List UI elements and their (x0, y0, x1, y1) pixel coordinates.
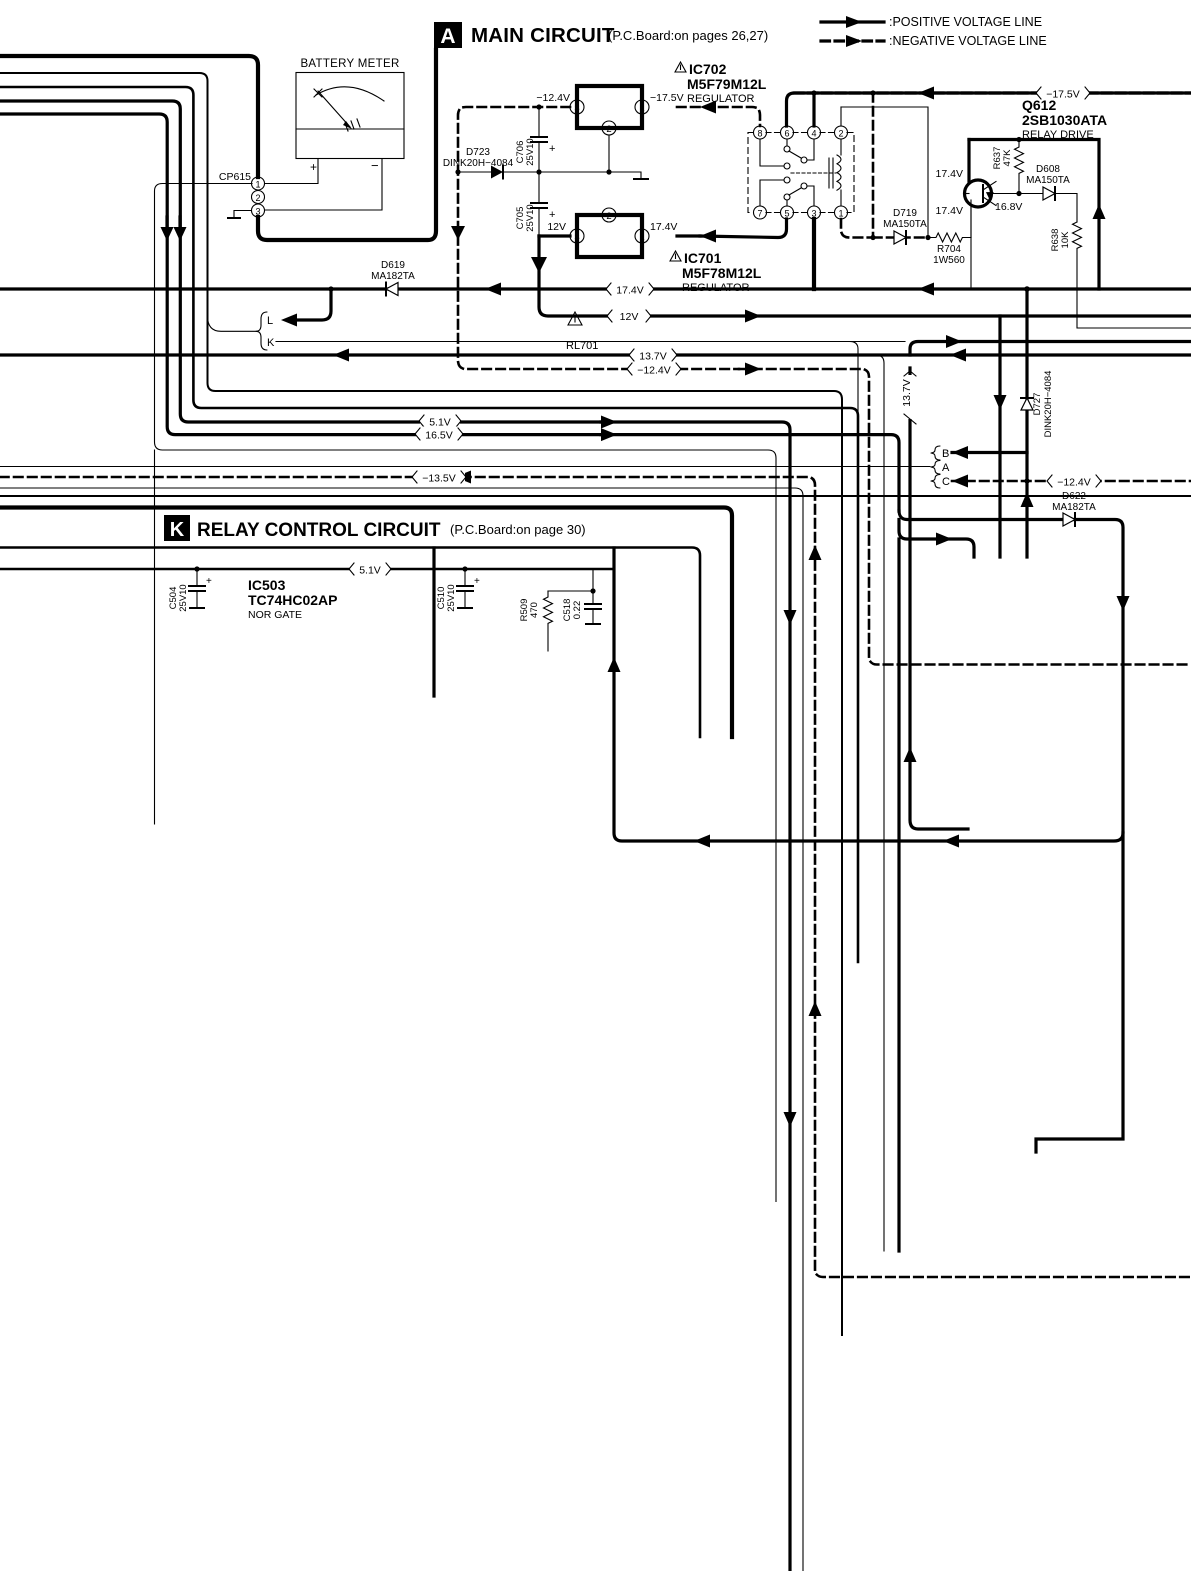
battery meter needle (318, 91, 350, 127)
node 17.4V x1027 (1024, 286, 1030, 292)
wire 17.4V bus (0, 287, 1191, 290)
wire bus y73 (0, 73, 842, 1335)
K section under border (0, 548, 700, 738)
node top bus x814 (811, 90, 816, 95)
svg-text:3: 3 (255, 207, 260, 217)
svg-text:25V10: 25V10 (446, 584, 457, 611)
IC702 box (577, 86, 642, 128)
resistor R638 (1050, 222, 1191, 328)
arrow left on 17.4V bus right (918, 283, 934, 296)
svg-text:−17.5V: −17.5V (650, 92, 684, 104)
wire top dashed bus y93 (787, 93, 1191, 126)
wire bus y87 (0, 87, 858, 962)
wire branch curve to LK brace (208, 316, 259, 331)
svg-text:7: 7 (757, 209, 762, 219)
relay RL701 pin 7 (754, 206, 767, 219)
arrow down on 12V x539 (531, 257, 547, 273)
wire meter plus lead (265, 159, 318, 184)
wire -12.4V dashed mid to x869 (739, 369, 1191, 665)
arrow right on 12V bus (745, 310, 761, 323)
wire meter minus lead (265, 159, 382, 211)
svg-text:MAIN CIRCUIT: MAIN CIRCUIT (471, 24, 615, 47)
label -13.5V top (412, 470, 466, 485)
diode D608 (1026, 164, 1070, 200)
relay RL701 pin 4 (808, 126, 821, 139)
label 17.4V bus (606, 282, 654, 297)
IC701 pin 3 (570, 229, 584, 243)
svg-text:2: 2 (838, 129, 843, 139)
capacitor C706 (515, 107, 555, 172)
wire CP615 pin1 line to left vertical (155, 184, 777, 1202)
svg-text:RELAY CONTROL CIRCUIT: RELAY CONTROL CIRCUIT (197, 520, 441, 541)
wire RL701 pin3 down (812, 219, 816, 289)
svg-text:13.7V: 13.7V (639, 351, 666, 363)
arrow right on y341.5 (946, 335, 962, 348)
label 13.7V vertical (901, 371, 918, 424)
svg-text:2SB1030ATA: 2SB1030ATA (1022, 112, 1107, 128)
wire pin4 feed (812, 93, 815, 126)
label 12V bus (607, 308, 651, 323)
svg-text:BATTERY METER: BATTERY METER (300, 58, 399, 70)
relay RL701 coil (840, 139, 842, 206)
wire thin x884 (876, 355, 884, 1251)
wire 12V feed down (539, 234, 570, 237)
capacitor C518 (562, 569, 601, 624)
svg-text:DINK20H−4084: DINK20H−4084 (1043, 371, 1054, 438)
svg-text:2: 2 (606, 124, 611, 135)
wire 13.7V bus (0, 353, 1191, 356)
svg-text:MA150TA: MA150TA (1026, 175, 1070, 186)
relay RL701 warning label (566, 312, 598, 352)
svg-text:25V10: 25V10 (178, 584, 189, 611)
wire x154 vertical lower (154, 450, 156, 824)
wire mid rail to ground (539, 172, 641, 179)
svg-text:2: 2 (255, 193, 260, 203)
svg-text:MA182TA: MA182TA (371, 271, 415, 282)
svg-text:A: A (942, 462, 950, 474)
IC702 pin 2 (602, 121, 616, 135)
svg-text:17.4V: 17.4V (936, 205, 963, 217)
battery meter needle hub marks (345, 119, 360, 131)
svg-text:8: 8 (757, 129, 762, 139)
arrow left on 17.4V bus (485, 283, 501, 296)
svg-text:17.4V: 17.4V (936, 168, 963, 180)
wire Q612 base to D608 (992, 193, 1044, 195)
relay RL701 mid contacts (784, 163, 790, 169)
wire bottom dashed bus D719 (873, 236, 928, 239)
wire thick enclosure top (0, 56, 258, 177)
arrow down on x1123 (1117, 596, 1130, 611)
wire 16.5V line right end (601, 435, 899, 511)
wire dashed x873 down (872, 93, 875, 238)
svg-text:−13.5V: −13.5V (422, 473, 456, 485)
capacitor C504 (168, 566, 212, 611)
capacitor C705 (515, 172, 555, 236)
IC503 label (248, 577, 337, 621)
arrow left L (281, 314, 297, 327)
legend positive voltage line (821, 15, 1042, 29)
svg-text:K: K (267, 337, 275, 349)
svg-text::POSITIVE VOLTAGE LINE: :POSITIVE VOLTAGE LINE (889, 15, 1042, 29)
thin box around relay right (841, 107, 928, 238)
relay RL701 pin 2 (835, 126, 848, 139)
wire thin y488 (0, 488, 803, 1571)
svg-text:Q612: Q612 (1022, 97, 1056, 113)
svg-text:+: + (474, 576, 480, 587)
svg-text:D619: D619 (381, 260, 405, 271)
svg-text:M5F78M12L: M5F78M12L (682, 265, 762, 281)
brace A (931, 461, 940, 475)
arrow down on x790 (784, 610, 797, 625)
arrow down on x180 (174, 227, 187, 241)
svg-text:CP615: CP615 (219, 171, 251, 183)
arrow up on x614 (608, 657, 621, 672)
svg-text:TC74HC02AP: TC74HC02AP (248, 592, 337, 608)
connector CP615 pin 3 (252, 204, 265, 217)
capacitor C510 (436, 566, 480, 611)
svg-text:−12.4V: −12.4V (536, 92, 570, 104)
resistor R704 (928, 233, 971, 266)
battery meter scale arc (316, 87, 384, 101)
svg-text:17.4V: 17.4V (616, 285, 643, 297)
arrow down on dashed x458 (451, 226, 465, 240)
wire 5.1V rail (0, 568, 614, 571)
arrow down on x167 (161, 227, 174, 241)
relay RL701 pin 1 (835, 206, 848, 219)
svg-text:470: 470 (529, 602, 540, 618)
ground mid rail (634, 178, 648, 180)
svg-text:5.1V: 5.1V (359, 565, 381, 577)
arrow left on -13.5V (455, 471, 471, 484)
svg-text:D727: D727 (1032, 393, 1043, 416)
IC702 label (675, 61, 767, 105)
svg-text:K: K (170, 519, 185, 541)
relay RL701 actuator dashed (791, 172, 836, 174)
svg-text:2: 2 (606, 211, 611, 222)
ground at CP615 pin3 (234, 211, 251, 219)
svg-text:+: + (549, 143, 555, 155)
wire branch to RL702 pin8 (899, 520, 974, 558)
arrow left on 13.7V bus right (950, 349, 966, 362)
svg-text:16.5V: 16.5V (425, 430, 452, 442)
svg-text:D608: D608 (1036, 164, 1060, 175)
relay RL701 upper contact (786, 139, 788, 146)
svg-text:REGULATOR: REGULATOR (687, 93, 754, 105)
svg-text:17.4V: 17.4V (650, 221, 677, 233)
node mid rail (455, 169, 460, 174)
wire -13.5V dashed top (0, 477, 1191, 1277)
label 5.1V y421 (419, 414, 461, 429)
IC702 pin 1 (635, 100, 649, 114)
label 16.5V (415, 427, 463, 442)
relay RL701 pin 6 (781, 126, 794, 139)
K section top border (0, 495, 1191, 497)
svg-text:13.7V: 13.7V (901, 379, 913, 406)
relay RL701 lower contact (786, 200, 788, 206)
resistor R637 (992, 140, 1024, 194)
wire Q612 emitter down to 17.4V bus (970, 206, 972, 289)
svg-text:10K: 10K (1060, 231, 1071, 249)
arrow right on 5.1V y421 (601, 416, 617, 429)
connector CP615 pin 1 (252, 177, 265, 190)
svg-text:0.22: 0.22 (572, 601, 583, 620)
diode D727 (1021, 371, 1054, 438)
svg-text:1: 1 (838, 209, 843, 219)
svg-text:C: C (942, 476, 950, 488)
wire R509 C518 node (548, 590, 593, 592)
svg-text:1W560: 1W560 (933, 255, 965, 266)
wire IC702 pin2 down (608, 135, 610, 172)
transistor Q612 label (1022, 97, 1107, 141)
wire thick enclosure CP615 to bottom corner (258, 50, 436, 240)
svg-text:(P.C.Board:on page 30): (P.C.Board:on page 30) (450, 522, 586, 537)
svg-text:47K: 47K (1002, 149, 1013, 167)
svg-text:B: B (942, 448, 949, 460)
svg-text:M5F79M12L: M5F79M12L (687, 76, 767, 92)
svg-text:4: 4 (811, 129, 816, 139)
svg-text:1: 1 (639, 103, 644, 114)
relay RL701 pin 3 (808, 206, 821, 219)
wire RL701 pin1 to bottom dashed bus (841, 219, 873, 238)
brace C (931, 475, 940, 489)
wire A line (0, 466, 930, 468)
svg-text:IC503: IC503 (248, 577, 286, 593)
svg-text:D723: D723 (466, 147, 490, 158)
section badge K (164, 515, 190, 541)
label -12.4V right (1047, 474, 1101, 489)
arrow right on 16.5V (601, 428, 617, 441)
wire K line (276, 341, 905, 343)
svg-text:NOR GATE: NOR GATE (248, 609, 302, 621)
battery meter box (296, 73, 404, 159)
svg-text:R704: R704 (937, 244, 961, 255)
legend negative voltage line (821, 34, 1047, 48)
relay RL701 pin 5 (781, 206, 794, 219)
label 13.7V bus (629, 348, 677, 363)
svg-text:−12.4V: −12.4V (637, 365, 671, 377)
arrow right on y539 (936, 533, 952, 546)
node top bus x873 (870, 90, 875, 95)
svg-text:12V: 12V (547, 221, 566, 233)
arrow up on x910 (904, 747, 917, 762)
wire x1000 12V branch down to RL702 pin6 (998, 316, 1001, 557)
label -17.5V top right (1036, 86, 1090, 101)
node R637 top (1016, 137, 1021, 142)
wire -17.5V dashed to RL701 pin8 (677, 107, 760, 126)
resistor R509 (519, 591, 553, 651)
arrow up on x1027 (1021, 492, 1034, 507)
svg-text:IC701: IC701 (684, 250, 722, 266)
IC701 box (577, 215, 642, 257)
connector CP615 pin 2 (252, 191, 265, 204)
svg-text:3: 3 (574, 232, 579, 243)
svg-text:L: L (267, 315, 273, 327)
wire 5.1V top line right end (601, 422, 790, 1571)
svg-text:MA182TA: MA182TA (1052, 502, 1096, 513)
svg-text:16.8V: 16.8V (995, 201, 1022, 213)
transistor Q612 (965, 180, 997, 207)
arrow up on dashed x815 low (809, 1001, 822, 1016)
section badge A (434, 22, 462, 48)
relay RL701 pin 8 (754, 126, 767, 139)
wire 5.1V to pin14 (432, 548, 435, 696)
label -12.4V mid dashed (627, 362, 681, 377)
connector brace LK (256, 312, 267, 350)
svg-text:IC702: IC702 (689, 61, 727, 77)
wire 13.7V branch K-line thick (910, 342, 1191, 356)
svg-text:+: + (549, 209, 555, 221)
svg-text:−: − (371, 158, 379, 173)
arrow down on x1000 (994, 395, 1007, 410)
IC701 pin 2 (602, 208, 616, 222)
IC702 pin 3 (570, 100, 584, 114)
wire Q612 collector top (969, 140, 1099, 290)
svg-text:+: + (206, 576, 212, 587)
svg-text:MA150TA: MA150TA (883, 219, 927, 230)
wire -12.4V dashed rail (458, 107, 739, 369)
arrow left on 13.7V bus at left (333, 349, 349, 362)
wire bus y114 (0, 114, 601, 435)
svg-text:12V: 12V (620, 311, 639, 323)
svg-text:3: 3 (574, 103, 579, 114)
relay RL701 dashed body (748, 133, 753, 213)
wire thin x858 (850, 342, 858, 521)
wire C line dashed (952, 480, 1191, 483)
wire R704 to Q612 emitter (970, 200, 972, 238)
svg-text:RL701: RL701 (566, 340, 598, 352)
wire x1027 17.4V branch down to RL702 pin4 (1025, 289, 1028, 557)
svg-text:5: 5 (784, 209, 789, 219)
arrows left on y841 (943, 835, 959, 848)
wire D608 to R638 (1055, 194, 1077, 223)
wire L branch (295, 289, 331, 320)
svg-text:A: A (440, 25, 455, 48)
svg-text:6: 6 (784, 129, 789, 139)
diode D619 (371, 260, 415, 296)
IC701 label (670, 250, 762, 294)
diode D719 (883, 208, 927, 244)
svg-text::NEGATIVE VOLTAGE LINE: :NEGATIVE VOLTAGE LINE (889, 34, 1047, 48)
svg-text:1: 1 (639, 232, 644, 243)
arrow up on dashed x815 (809, 545, 822, 560)
arrow up on x1099 (1093, 204, 1106, 219)
svg-text:+: + (310, 160, 317, 174)
brace B (931, 446, 940, 460)
arrow left on top dashed bus (918, 87, 934, 100)
node 17.4V L-branch (328, 286, 333, 291)
wire bus y101 (0, 101, 601, 422)
svg-text:1: 1 (255, 180, 260, 190)
svg-text:D719: D719 (893, 208, 917, 219)
svg-text:(P.C.Board:on pages 26,27): (P.C.Board:on pages 26,27) (608, 28, 768, 43)
wire 17.4V from IC701 to RL701 pin5 (677, 234, 700, 237)
wire B line (952, 451, 1027, 454)
arrow right on -12.4V dashed (745, 363, 761, 376)
label 5.1V rail (349, 562, 391, 577)
wire 16.5V down to D622 line (899, 511, 1123, 1152)
svg-text:−12.4V: −12.4V (1057, 477, 1091, 489)
IC701 pin 1 (635, 229, 649, 243)
wire x614 thick vertical (614, 548, 1123, 841)
diode D622 (1052, 491, 1096, 526)
diode D723 (443, 147, 536, 179)
